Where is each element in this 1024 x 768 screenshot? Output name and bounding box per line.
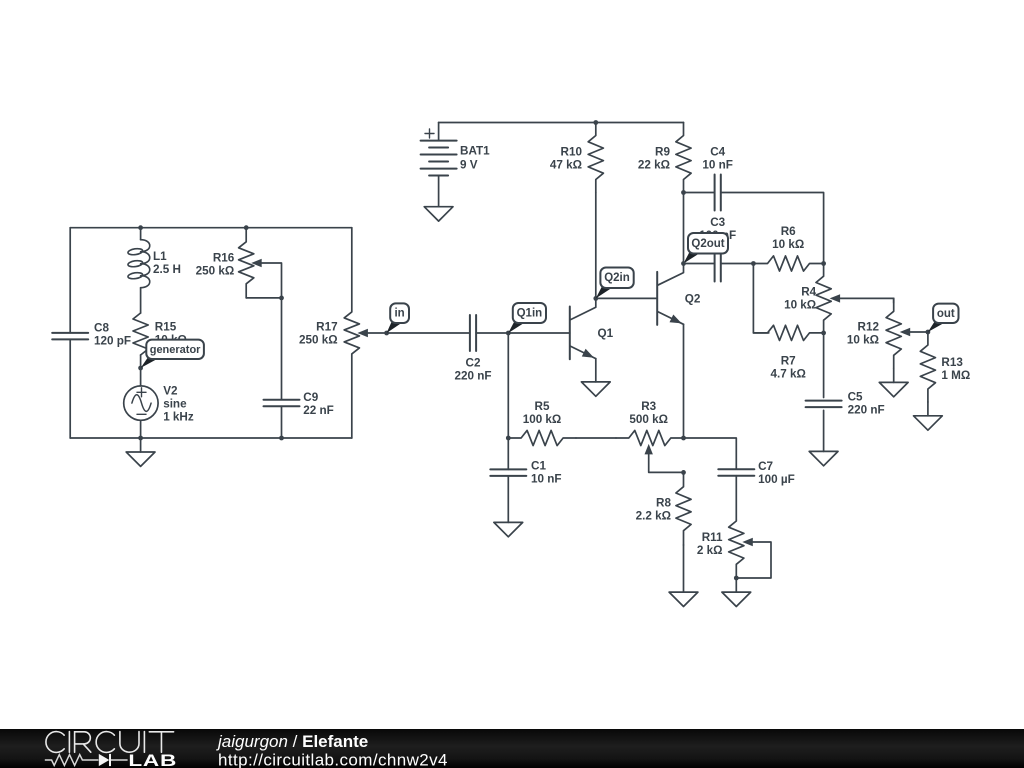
ground below V2 [126,452,155,466]
label C2 220nF [454,357,491,383]
svg-text:R16: R16 [213,252,235,265]
node L1 top junction [138,225,143,230]
svg-text:4.7 kΩ: 4.7 kΩ [771,368,806,381]
capacitor C1 [490,469,526,476]
wire R4 wiper to R12 [893,298,895,303]
label R6 10k [772,225,804,251]
svg-text:10 kΩ: 10 kΩ [847,334,879,347]
flag Q1in [508,303,546,333]
resistor R7 [753,325,823,340]
wire R15 to generator node [140,355,142,368]
wire R7 junction to C5 [823,333,825,398]
svg-text:2.5 H: 2.5 H [153,263,181,276]
label C7 100uF [758,460,795,486]
svg-text:9 V: 9 V [460,159,478,172]
label Q1 [598,327,614,340]
svg-text:1 MΩ: 1 MΩ [941,369,970,382]
node R16 wiper junction [279,296,284,301]
wire tank left lower [69,339,71,438]
capacitor C8 [52,333,88,340]
svg-text:R3: R3 [641,400,656,413]
node in junction [384,331,389,336]
svg-text:100 kΩ: 100 kΩ [523,413,562,426]
resistor R9 [676,123,691,193]
svg-text:10 kΩ: 10 kΩ [772,238,804,251]
wire C7 to R11 [735,476,737,520]
capacitor C3 [715,246,721,282]
battery BAT1 [421,123,457,207]
label R4 10k [784,286,817,312]
svg-text:R11: R11 [702,531,723,544]
capacitor C2 [470,315,476,351]
potentiometer R16 [239,228,254,298]
svg-text:220 nF: 220 nF [454,370,491,383]
label L1 2.5H [153,250,181,276]
resistor R13 [920,332,935,402]
ground below R8 [669,592,698,606]
ground below R11 [722,592,751,606]
svg-text:R15: R15 [155,321,177,334]
svg-text:Q1in: Q1in [517,308,543,320]
R11 wiper arrow [736,538,771,578]
svg-text:generator: generator [150,344,201,356]
footer bar [0,729,1024,768]
flag generator [141,340,204,368]
svg-text:C3: C3 [710,216,725,229]
wire tank bottom [70,437,352,439]
svg-text:out: out [937,308,955,320]
label Q2 [685,293,701,306]
logo LAB [128,751,177,768]
label R5 100k [523,400,562,426]
svg-text:22 kΩ: 22 kΩ [638,159,670,172]
wire C1 top lead [507,438,509,469]
wire R12 to ground [893,368,895,382]
svg-text:2.2 kΩ: 2.2 kΩ [636,510,671,523]
svg-text:22 nF: 22 nF [303,404,334,417]
wire C5 to ground [823,410,825,451]
svg-text:sine: sine [163,397,187,410]
label R11 2k [697,531,723,557]
R12 wiper arrow [900,328,928,336]
node R11 bottom junction [734,576,739,581]
wire R13 to ground [927,402,929,416]
label C9 22nF [303,391,334,417]
svg-text:250 kΩ: 250 kΩ [196,265,235,278]
label R16 250k [196,252,235,278]
resistor R6 [753,256,823,271]
R3 wiper arrow [645,444,684,473]
wire in node to C2 [387,332,470,334]
wire C3 to R6 [721,263,754,265]
wire R9 to C4 [684,192,715,194]
potentiometer R3 [616,430,684,445]
potentiometer R4 [816,264,831,333]
flag Q2in [596,268,634,299]
footer url [218,751,448,768]
label R8 2.2k [636,497,672,523]
svg-text:BAT1: BAT1 [460,144,490,157]
R17 wiper arrow [357,329,386,337]
wire C4 to right corner [721,193,824,264]
svg-text:C1: C1 [531,460,546,473]
label C5 220nF [848,391,885,417]
wire C2 to Q1 base [476,332,570,334]
capacitor C7 [718,469,754,476]
R16 wiper arrow [251,259,281,298]
node C3-R6 junction [751,261,756,266]
svg-text:250 kΩ: 250 kΩ [299,334,338,347]
svg-text:10 nF: 10 nF [531,473,562,486]
label R17 250k [299,321,338,347]
potentiometer R12 [886,298,901,368]
wire C3 junction down to R7 [753,264,768,333]
wire R8 to ground [683,545,685,592]
resistor R8 [676,472,691,545]
svg-text:10 kΩ: 10 kΩ [784,299,816,312]
wire R10 to Q2in node [595,193,597,299]
svg-text:Q2in: Q2in [604,272,630,284]
label C1 10nF [531,460,562,486]
node R9-C4 junction [681,190,686,195]
wire R16 node to C9 [281,298,283,400]
svg-text:C4: C4 [710,146,725,159]
node Q2in junction [593,296,598,301]
svg-text:R12: R12 [858,321,880,334]
label R10 47k [550,146,583,172]
ground below Q1 [581,382,610,396]
potentiometer R17 [344,228,359,438]
label R15 [155,321,187,347]
svg-text:L1: L1 [153,250,167,263]
svg-text:C5: C5 [848,391,863,404]
label C3 100nF [699,216,736,242]
node Q2 collector junction [681,261,686,266]
wire Q1in node down to R5 [507,333,509,438]
source V2 sine [124,368,158,438]
node out junction [926,330,931,335]
svg-text:C7: C7 [758,460,773,473]
svg-text:100 µF: 100 µF [758,473,795,486]
label C4 10nF [702,146,733,172]
svg-text:C9: C9 [303,391,318,404]
flag in [387,303,409,333]
svg-text:220 nF: 220 nF [848,404,885,417]
capacitor C9 [264,400,300,406]
inductor L1 [128,228,150,313]
svg-text:C8: C8 [94,322,109,335]
svg-text:V2: V2 [163,384,178,397]
wire tank top [70,227,352,229]
label R7 4.7k [771,355,806,381]
CircuitLab logo CIRCUIT [46,732,174,753]
svg-text:10 nF: 10 nF [702,159,733,172]
label R13 1M [941,356,970,382]
logo diode symbol [99,754,128,766]
resistor R5 [508,430,576,445]
svg-text:R6: R6 [781,225,796,238]
svg-text:in: in [394,308,404,320]
svg-text:LAB: LAB [128,751,177,768]
wire R16 bottom to wiper node [246,297,281,299]
ground below battery [424,207,453,221]
label C8 120pF [94,322,131,348]
label R12 10k [847,321,880,347]
node R6-R4 junction [821,261,826,266]
svg-text:Q2: Q2 [685,293,701,306]
svg-text:120 pF: 120 pF [94,335,131,348]
svg-text:R7: R7 [781,355,796,368]
wire Q1 emitter to ground [595,359,597,382]
svg-text:R8: R8 [656,497,671,510]
wire C9 to tank bottom [281,406,283,438]
svg-text:jaigurgon / Elefante: jaigurgon / Elefante [216,732,368,751]
transistor Q1 [570,298,596,359]
wire Q2 collector node to C3 [684,263,715,265]
capacitor C5 [806,401,842,408]
R4 wiper arrow [830,294,894,302]
svg-text:R17: R17 [316,321,337,334]
ground below R13 [914,416,943,430]
wire tank left upper [69,228,71,333]
svg-text:http://circuitlab.com/chnw2v4: http://circuitlab.com/chnw2v4 [218,751,448,768]
node R5 left junction [506,436,511,441]
transistor Q2 [657,264,683,325]
node Q1in junction [506,331,511,336]
logo resistor zigzag wire [45,755,99,766]
wire Q2 emitter down [683,324,685,438]
ground below C1 [494,522,523,536]
ground below R12 [879,382,908,396]
svg-text:Q1: Q1 [598,327,614,340]
svg-text:C2: C2 [466,357,481,370]
ground below C5 [809,451,838,465]
svg-text:R5: R5 [535,400,550,413]
node R16 top junction [244,225,249,230]
battery label BAT1 9V [460,144,490,171]
node generator junction [138,366,143,371]
potentiometer R11 [729,520,744,578]
svg-text:R10: R10 [561,146,583,159]
label R9 22k [638,146,671,172]
wire V+ rail [439,122,684,124]
svg-text:R9: R9 [655,146,670,159]
wire R3 junction to C7 [684,438,737,469]
wire C1 to ground [507,476,509,523]
flag Q2out [684,233,729,264]
wire R5 to R3 [576,437,616,439]
svg-text:R13: R13 [941,356,963,369]
label R3 500k [629,400,668,426]
wire V2 ground stub [140,438,142,452]
wire R11 to ground [735,578,737,592]
svg-text:R4: R4 [801,286,816,299]
svg-text:Q2out: Q2out [691,238,724,250]
svg-text:500 kΩ: 500 kΩ [629,413,668,426]
resistor R15 [133,313,148,355]
svg-text:2 kΩ: 2 kΩ [697,544,723,557]
node rail-R10 junction [593,120,598,125]
node R3 wiper junction [681,470,686,475]
flag out [928,304,959,332]
capacitor C4 [715,175,721,211]
svg-text:47 kΩ: 47 kΩ [550,159,582,172]
resistor R10 [588,123,603,193]
wire Q1 collector node to Q2 base [596,297,657,299]
footer title jaigurgon / Elefante [216,732,368,751]
label V2 sine 1kHz [163,384,194,423]
node R3 right junction [681,436,686,441]
node R7-C5 junction [821,331,826,336]
svg-text:1 kHz: 1 kHz [163,410,194,423]
node C9 bottom junction [279,436,284,441]
wire vertical R9 junction to Q2 collector [683,193,685,264]
node V2 bottom junction [138,436,143,441]
